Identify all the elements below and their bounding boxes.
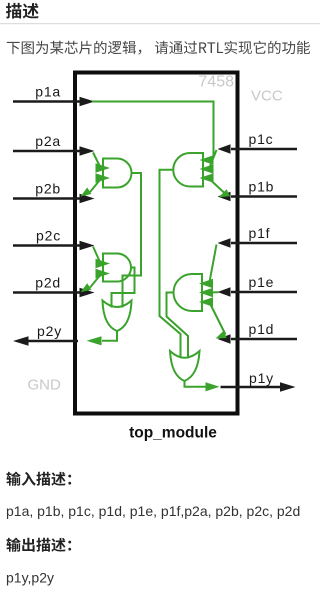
svg-text:7458: 7458 xyxy=(198,74,234,91)
OR gate 1 (p2y) down-pointing xyxy=(103,301,132,332)
wire OR1 output to p2y xyxy=(102,331,117,341)
divider xyxy=(0,23,320,24)
svg-text:p2a: p2a xyxy=(35,133,61,149)
pin p1c xyxy=(218,131,298,154)
heading 描述 xyxy=(6,3,39,19)
svg-text:p2d: p2d xyxy=(35,275,61,291)
pin p2c xyxy=(13,228,95,251)
svg-text:GND: GND xyxy=(28,377,62,394)
paragraph 下图为某芯片的逻辑，请通过RTL实现它的功能 xyxy=(7,41,310,55)
pin p2d xyxy=(13,275,95,298)
gate B input arrowheads xyxy=(96,259,111,269)
svg-text:p2c: p2c xyxy=(36,228,61,244)
svg-text:p1b: p1b xyxy=(249,179,275,195)
pin p1d xyxy=(218,321,298,344)
heading 输入描述 xyxy=(6,472,71,486)
gate D input arrowheads xyxy=(199,279,213,289)
wire p2c to gate B input1 xyxy=(93,247,100,262)
svg-text:p1y,p2y: p1y,p2y xyxy=(6,570,54,586)
wire gate D input3 to p1d xyxy=(210,304,226,335)
pin p1b xyxy=(218,179,298,202)
svg-text:VCC: VCC xyxy=(251,88,283,105)
svg-text:p1a, p1b, p1c, p1d, p1e, p1f,p: p1a, p1b, p1c, p1d, p1e, p1f,p2a, p2b, p… xyxy=(6,503,300,519)
AND gate C 3-input (p1a,p1c,p1b) mirrored xyxy=(173,153,203,187)
heading 输出描述 xyxy=(6,538,71,552)
AND gate A (p2a,p2b) xyxy=(103,159,132,188)
gate C input arrowheads xyxy=(200,155,214,165)
pin p2y (output) xyxy=(13,323,78,346)
svg-text:p1e: p1e xyxy=(249,274,275,290)
svg-text:p1y: p1y xyxy=(249,370,274,386)
wire p1f to gate D input1 xyxy=(210,245,217,283)
svg-text:p2y: p2y xyxy=(37,323,62,339)
wire gate C input3 to p1b xyxy=(210,180,225,194)
AND gate D 3-input (p1f,p1e,p1d) mirrored xyxy=(174,274,202,311)
OR gate 2 (p1y) down-pointing xyxy=(170,351,200,381)
svg-text:top_module: top_module xyxy=(129,425,217,442)
svg-text:p1a: p1a xyxy=(35,84,61,100)
wire OR2 output to p1y xyxy=(185,381,207,387)
svg-text:p2b: p2b xyxy=(35,181,61,197)
wire p2a to gate A input1 xyxy=(93,153,100,166)
wire gate B input2 to p2d xyxy=(90,276,100,288)
pin p1y (output) xyxy=(221,370,296,392)
svg-text:p1f: p1f xyxy=(249,225,271,241)
pin p2a xyxy=(13,133,95,156)
chip outline 7458 xyxy=(75,73,238,414)
wire gate D output to OR2 xyxy=(167,293,189,359)
svg-text:p1d: p1d xyxy=(249,321,275,337)
pin p1e xyxy=(218,274,298,297)
wire gate A output to OR1 xyxy=(123,173,142,308)
wire gate B output to OR1 xyxy=(112,268,135,308)
gate A input arrowheads xyxy=(96,163,111,173)
wire p1e to gate D input2 xyxy=(213,291,219,293)
wire gate A input2 to p2b xyxy=(90,181,100,193)
pin p1a xyxy=(13,84,95,107)
wire gate C output to OR2 xyxy=(160,170,181,358)
svg-text:p1c: p1c xyxy=(249,131,274,147)
pin p1f xyxy=(218,225,298,248)
wire p1a to gate C input1 xyxy=(92,102,214,160)
AND gate B (p2c,p2d) xyxy=(103,254,131,282)
pin p2b xyxy=(13,181,95,204)
wire p1c to gate C input2 xyxy=(210,150,217,168)
